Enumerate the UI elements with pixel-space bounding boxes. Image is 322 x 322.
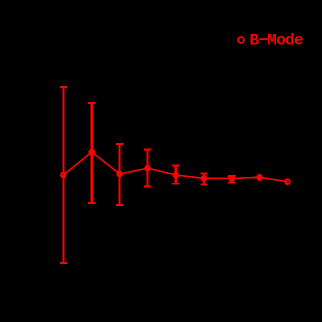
svg-text:B−Mode: B−Mode [250,32,304,50]
